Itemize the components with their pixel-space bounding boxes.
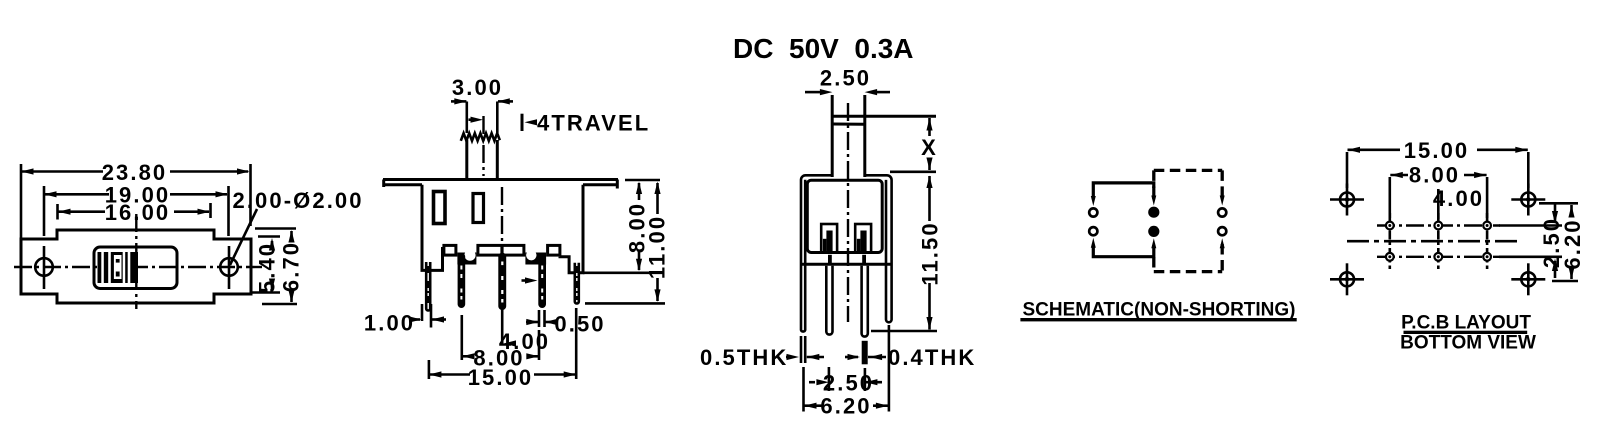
svg-text:6.20: 6.20: [820, 394, 871, 419]
dimension 8.00 (pcb): [1389, 177, 1392, 218]
dimension 2.50 (shaft): [805, 91, 821, 94]
svg-text:3.00: 3.00: [452, 75, 503, 100]
comb boss right: [548, 245, 560, 255]
knob shaft: [465, 140, 468, 180]
dimension 4.00 (pcb): [1437, 189, 1440, 219]
comb boss left: [444, 245, 456, 255]
svg-text:4TRAVEL: 4TRAVEL: [537, 110, 650, 135]
slider knob outline: [94, 247, 177, 289]
svg-text:0.50: 0.50: [554, 312, 605, 337]
terminal web left: [457, 253, 476, 265]
mounting hole BL: [1330, 263, 1364, 295]
pads row2: [1386, 253, 1394, 261]
shaft: [831, 95, 834, 177]
0.5thk ticks: [800, 336, 803, 363]
mounting hole TR: [1511, 184, 1545, 216]
mounting flange: [383, 178, 618, 181]
travel arrow: [469, 118, 473, 121]
dimension X: [926, 118, 932, 131]
slider knob actuator block: [98, 252, 139, 283]
wire top: [1093, 183, 1154, 199]
mounting hole BR: [1511, 263, 1545, 295]
terminal C1: [1218, 208, 1226, 216]
vertical centerline: [135, 214, 137, 309]
svg-text:0.4THK: 0.4THK: [888, 345, 976, 370]
terminal A1: [1089, 208, 1097, 216]
dimension 2.50 (pcb rows): [1499, 224, 1562, 227]
contact tower left: [821, 224, 837, 253]
contact tower right: [855, 224, 871, 253]
dimension 5.40: [258, 235, 280, 238]
extension line 11.00 bottom: [585, 302, 665, 305]
svg-text:23.80: 23.80: [102, 160, 168, 185]
metal frame: [801, 175, 831, 331]
svg-text:SCHEMATIC(NON-SHORTING): SCHEMATIC(NON-SHORTING): [1022, 300, 1295, 321]
dimension 8.00 (front): [638, 183, 641, 200]
svg-text:X: X: [921, 135, 938, 160]
terminal A2: [1089, 227, 1097, 235]
label 4TRAVEL: [521, 114, 524, 131]
extension line 8.00 bottom: [583, 271, 664, 274]
top view body outline: [21, 230, 251, 303]
terminal C2: [1218, 227, 1226, 235]
dimension 15.00: [428, 360, 431, 379]
front body outline right: [560, 185, 583, 273]
plastic body: [807, 180, 882, 252]
vent slot left: [434, 192, 446, 224]
terminal B1 (common): [1148, 207, 1159, 218]
svg-text:6.70: 6.70: [279, 241, 304, 292]
dimension 11.00: [656, 183, 659, 214]
svg-text:16.00: 16.00: [105, 200, 171, 225]
dimension 2.50 (rows): [828, 367, 831, 391]
flange top extension right: [625, 179, 660, 182]
pin rear: [862, 266, 868, 337]
svg-text:8.00: 8.00: [1409, 163, 1460, 188]
side centerline: [847, 103, 849, 322]
svg-text:5.40: 5.40: [255, 242, 280, 293]
svg-text:P.C.B LAYOUT: P.C.B LAYOUT: [1401, 313, 1531, 334]
dimension 23.80: [20, 164, 23, 240]
svg-text:DC 50V 0.3A: DC 50V 0.3A: [733, 33, 914, 64]
terminal 1: [458, 253, 466, 308]
dimension 0.50: [538, 310, 541, 327]
dimension 1.00: [421, 304, 424, 321]
vent slot right: [473, 194, 484, 223]
dimension 6.20: [802, 367, 805, 412]
dimension 3.00: [465, 102, 468, 134]
svg-text:4.00: 4.00: [1433, 186, 1484, 211]
wire bottom: [1093, 245, 1154, 257]
dimension 8.00 (pitch): [460, 315, 463, 360]
svg-text:BOTTOM VIEW: BOTTOM VIEW: [1400, 333, 1536, 354]
pad column centerlines: [1389, 213, 1392, 269]
svg-text:11.00: 11.00: [645, 215, 670, 279]
svg-text:15.00: 15.00: [1404, 138, 1470, 163]
svg-text:6.20: 6.20: [1560, 218, 1585, 269]
terminal web right: [525, 253, 546, 265]
svg-text:0.5THK: 0.5THK: [700, 345, 788, 370]
svg-text:11.50: 11.50: [918, 221, 943, 285]
svg-text:2.50: 2.50: [820, 66, 871, 91]
arrows to right terminals: [1220, 196, 1225, 206]
label 0.4THK: [845, 356, 858, 359]
leader arrow to terminal 3: [522, 279, 527, 282]
right side lug: [576, 263, 578, 302]
dashed common frame: [1154, 170, 1222, 271]
pin front wide: [826, 266, 832, 335]
body centerline: [501, 187, 503, 244]
front body outline left: [422, 185, 443, 271]
left side lug: [427, 262, 429, 309]
dimension 16.00: [56, 204, 59, 220]
terminal 2: [498, 253, 506, 310]
dimension 15.00 (pcb): [1346, 152, 1349, 188]
comb boss center: [478, 245, 524, 255]
svg-text:1.00: 1.00: [364, 311, 415, 336]
svg-text:2.00-Ø2.00: 2.00-Ø2.00: [233, 188, 364, 213]
left mounting hole: [35, 258, 53, 276]
knob centerline: [482, 116, 484, 176]
0.4thk pin section: [862, 341, 868, 365]
terminal B2 (common): [1148, 226, 1159, 237]
svg-text:2.50: 2.50: [823, 371, 874, 396]
pad row centerlines: [1377, 224, 1500, 226]
dimension 6.20 (pcb): [1539, 202, 1578, 205]
main centerline: [1347, 240, 1519, 243]
dimension 11.50: [926, 176, 932, 189]
mounting hole TL: [1330, 184, 1364, 216]
horizontal centerline: [14, 266, 262, 268]
base plate: [801, 263, 893, 266]
pads row1: [1386, 222, 1394, 230]
right mounting hole: [220, 258, 238, 276]
knob serration: [461, 133, 500, 141]
terminal 3: [538, 253, 546, 308]
dimension 6.70: [255, 227, 296, 230]
dimension 4.00: [501, 309, 504, 344]
svg-text:15.00: 15.00: [468, 365, 534, 390]
dimension 19.00: [43, 186, 46, 236]
